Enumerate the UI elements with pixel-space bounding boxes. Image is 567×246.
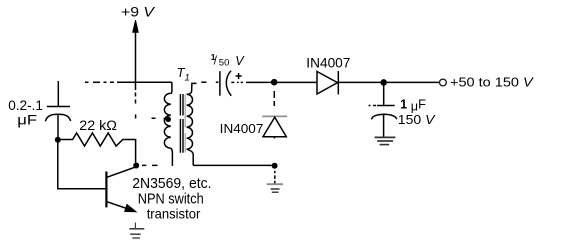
svg-text:/: / (214, 55, 218, 67)
svg-text:IN4007: IN4007 (306, 54, 350, 70)
svg-text:1 μF: 1 μF (400, 97, 426, 113)
wire: top rail left (to transformer primary top) (117, 81, 172, 83)
svg-text:150 V: 150 V (398, 113, 437, 127)
diode D2 IN4007 series (317, 71, 381, 95)
core lines (180, 94, 183, 153)
transformer T1 (152, 82, 197, 166)
primary bottom lead (171, 148, 173, 166)
svg-text:μF: μF (17, 111, 37, 127)
transistor Q1 2N3569 NPN (106, 167, 136, 212)
wire: dash-dot lead-in at left of top rail (85, 81, 114, 83)
svg-text:22 kΩ: 22 kΩ (79, 118, 117, 134)
wire: bottom rail secondary to node D (193, 164, 271, 166)
node C: junction dot at zener top (271, 79, 278, 106)
svg-text:50: 50 (219, 57, 230, 68)
phase dot on primary (165, 117, 171, 123)
output terminal circle (440, 79, 447, 86)
svg-text:+50 to 150 V: +50 to 150 V (450, 74, 534, 89)
ground (secondary return) (267, 184, 283, 192)
capacitor C3 1 uF 150 V (369, 86, 397, 137)
diode D1 IN4007 shunt (zener-connected) (262, 116, 287, 138)
node E: output junction dot (380, 79, 387, 86)
svg-text:transistor: transistor (147, 205, 201, 221)
capacitor C1 0.2-.1 uF (45, 81, 70, 137)
ground (emitter) (129, 223, 144, 239)
wire: C2 to diode D2 (246, 81, 317, 83)
node D: junction dot at bottom rail (272, 163, 278, 184)
node A: junction dot cap/resistor/base (55, 137, 61, 143)
secondary top lead (187, 83, 197, 94)
secondary winding (187, 94, 193, 149)
wire: dash segments node B to primary bottom lead (142, 164, 158, 166)
primary top lead (171, 82, 172, 93)
ground (output filter) (375, 137, 396, 144)
svg-text:T1: T1 (177, 66, 190, 83)
wire: dash-dot secondary top to C2 (201, 81, 218, 83)
+9 V supply arrow (133, 20, 138, 118)
secondary bottom lead (187, 149, 194, 165)
wire: node E to output terminal (387, 81, 440, 83)
svg-text:+9 V: +9 V (121, 4, 156, 20)
svg-text:V: V (235, 54, 245, 68)
resistor R1 22 kOhm (58, 133, 136, 163)
node B: junction dot collector/primary-bottom (133, 163, 139, 169)
wire: left vertical down to base (58, 140, 106, 189)
svg-text:IN4007: IN4007 (220, 121, 264, 136)
capacitor C2 1/50 uF coupling (220, 71, 243, 96)
primary winding (164, 93, 170, 148)
svg-text:2N3569, etc.: 2N3569, etc. (132, 176, 211, 192)
